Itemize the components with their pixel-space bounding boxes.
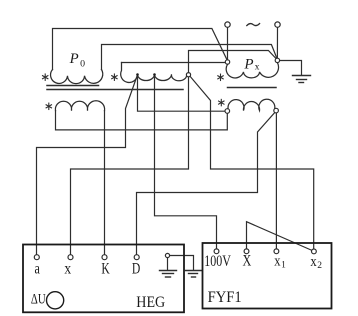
meter circle of dU indicator [47, 292, 64, 309]
svg-text:0: 0 [80, 58, 85, 69]
node circle : Px primary left terminal [225, 60, 229, 64]
wire Px primary right terminal to earth [279, 61, 301, 76]
wire FYF1 terminal X up and diagonal down to terminal x2 [247, 222, 313, 251]
FYF1 terminal X [244, 249, 249, 254]
svg-text:P: P [69, 51, 79, 67]
wire middle winding tap 1 down and across to Px secondary left terminal [138, 75, 226, 111]
node circle : middle winding right terminal [186, 73, 190, 77]
HEG instrument box [23, 245, 184, 313]
junction tap 2 on middle winding [153, 73, 156, 76]
HEG ground terminal circle [165, 253, 169, 257]
core line (Px transformer) [228, 87, 277, 89]
svg-text:1: 1 [281, 261, 286, 271]
svg-text:x: x [310, 254, 317, 270]
svg-text:X: X [243, 253, 252, 270]
node circle : Px secondary left terminal [225, 109, 230, 114]
wire AC source right lead down to Px primary right terminal [276, 27, 278, 58]
svg-text:D: D [132, 261, 140, 278]
polarity asterisk Px primary [218, 74, 223, 80]
polarity asterisk left secondary [46, 103, 51, 109]
HEG terminal K [102, 255, 107, 260]
svg-text:FYF1: FYF1 [208, 289, 242, 306]
coil P0 : standard transformer primary, 3 scallops down [51, 70, 103, 84]
wire middle winding right terminal up and across to Px primary right terminal [189, 51, 277, 73]
node circle : Px secondary right terminal [274, 108, 279, 113]
FYF1 terminal x1 [274, 249, 279, 254]
svg-text:P: P [243, 56, 253, 72]
core line upper (left transformer) [47, 85, 99, 87]
wire HEG ground terminal across to external earth [170, 256, 194, 270]
wire Px secondary left terminal down and across to left secondary left end [56, 111, 228, 130]
coil Px primary : 3 scallops down [226, 63, 278, 78]
ground symbol (outside HEG box) [186, 271, 202, 278]
junction tap 1 on middle winding [136, 73, 139, 76]
wire P0 left riser and top line to Px primary left terminal [53, 29, 228, 70]
FYF1 burden box [203, 243, 332, 309]
svg-text:x: x [274, 254, 281, 270]
wire middle winding top line to Px primary left terminal [122, 62, 228, 64]
core line lower (left transformer) [47, 89, 183, 91]
wire middle winding right terminal diagonal down to FYF1 terminal x2 [190, 76, 314, 249]
wire Px secondary right terminal down to FYF1 terminal x1 [275, 113, 277, 249]
svg-text:x: x [64, 260, 71, 277]
AC source left terminal circle [225, 22, 230, 27]
wire middle winding tap 2 down to FYF1 terminal 100V [155, 75, 217, 249]
svg-text:K: K [101, 261, 109, 278]
ground symbol (top right, Px primary) [293, 76, 311, 83]
wire AC source left lead down to Px primary left terminal [227, 27, 229, 59]
coil middle tapped winding : 4 scallops down [121, 63, 187, 83]
HEG terminal D [134, 255, 139, 260]
wire middle winding right terminal down to HEG terminal x [71, 77, 189, 255]
svg-text:a: a [35, 260, 40, 277]
wire P0 right riser across to Px primary right terminal [102, 45, 278, 70]
FYF1 terminal 100V [214, 249, 219, 254]
svg-text:ΔU: ΔU [31, 291, 46, 307]
wire HEG ground terminal lead down [167, 258, 169, 270]
polarity asterisk middle winding [112, 74, 117, 80]
svg-text:x: x [255, 62, 260, 72]
wire left secondary right end down to HEG terminal K [104, 111, 106, 255]
AC source right terminal circle [275, 22, 280, 27]
FYF1 terminal x2 [312, 249, 317, 254]
svg-text:100V: 100V [204, 253, 231, 270]
coil left secondary : 3 scallops up [55, 101, 104, 111]
wire Px secondary right terminal diagonal down and across to HEG terminal D [137, 112, 275, 255]
HEG terminal a [34, 255, 39, 260]
AC source tilde symbol [247, 24, 260, 26]
node circle : Px primary right terminal [275, 58, 279, 62]
svg-text:2: 2 [317, 261, 322, 271]
polarity asterisk P0 [43, 74, 48, 80]
svg-text:HEG: HEG [136, 294, 165, 311]
HEG terminal x [68, 255, 73, 260]
coil Px secondary : 3 scallops up [228, 99, 275, 110]
polarity asterisk Px secondary [219, 99, 224, 105]
ground symbol (inside HEG box) [160, 271, 177, 278]
wire middle winding tap 1 diagonal down to HEG terminal a [37, 75, 138, 255]
